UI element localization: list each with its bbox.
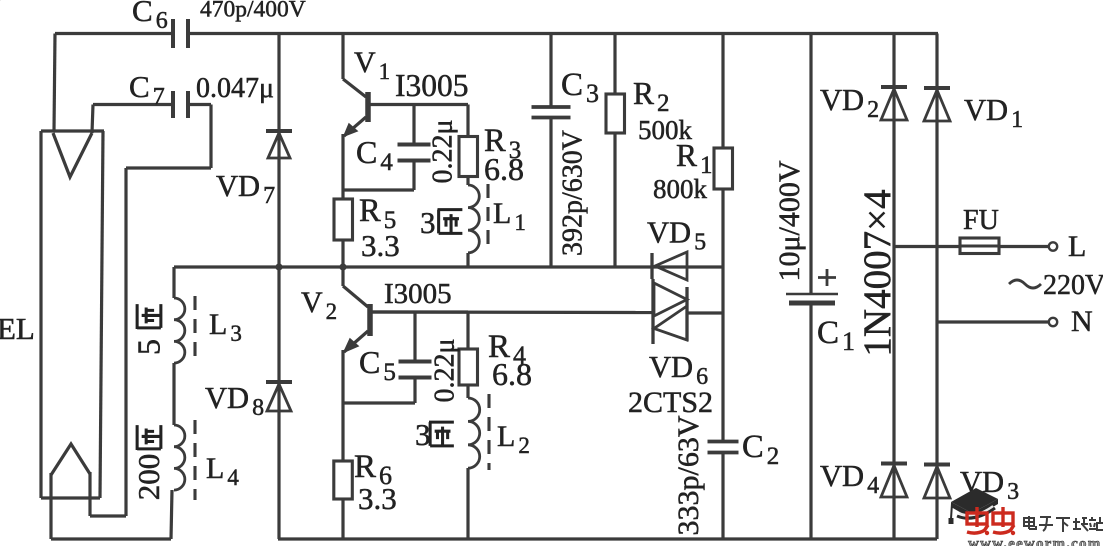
svg-text:1N4007×4: 1N4007×4 [856,189,899,356]
svg-text:2CTS2: 2CTS2 [628,386,713,419]
svg-text:0.22μ: 0.22μ [429,338,460,402]
svg-text:800k: 800k [653,174,708,204]
svg-text:3: 3 [415,417,431,452]
svg-text:0.22μ: 0.22μ [427,119,458,183]
svg-text:470p/400V: 470p/400V [200,0,306,23]
svg-text:FU: FU [963,205,999,236]
svg-text:6.8: 6.8 [492,356,532,392]
svg-text:3.3: 3.3 [358,481,397,516]
svg-text:EL: EL [0,311,35,346]
svg-text:333p/63V: 333p/63V [672,415,705,535]
svg-text:220V: 220V [1043,270,1103,301]
svg-text:392p/630V: 392p/630V [557,130,588,256]
svg-text:I3005: I3005 [395,68,469,103]
svg-text:10μ/400V: 10μ/400V [773,160,806,281]
svg-text:N: N [1071,305,1093,338]
svg-text:200: 200 [131,454,166,501]
svg-text:L: L [1068,230,1086,263]
svg-text:0.047μ: 0.047μ [196,73,274,104]
svg-text:www.eeworm.com: www.eeworm.com [968,536,1101,546]
svg-text:3: 3 [420,205,436,240]
svg-text:5: 5 [130,339,166,355]
svg-text:I3005: I3005 [384,278,452,310]
svg-text:6.8: 6.8 [484,151,524,187]
svg-text:3.3: 3.3 [361,228,400,263]
